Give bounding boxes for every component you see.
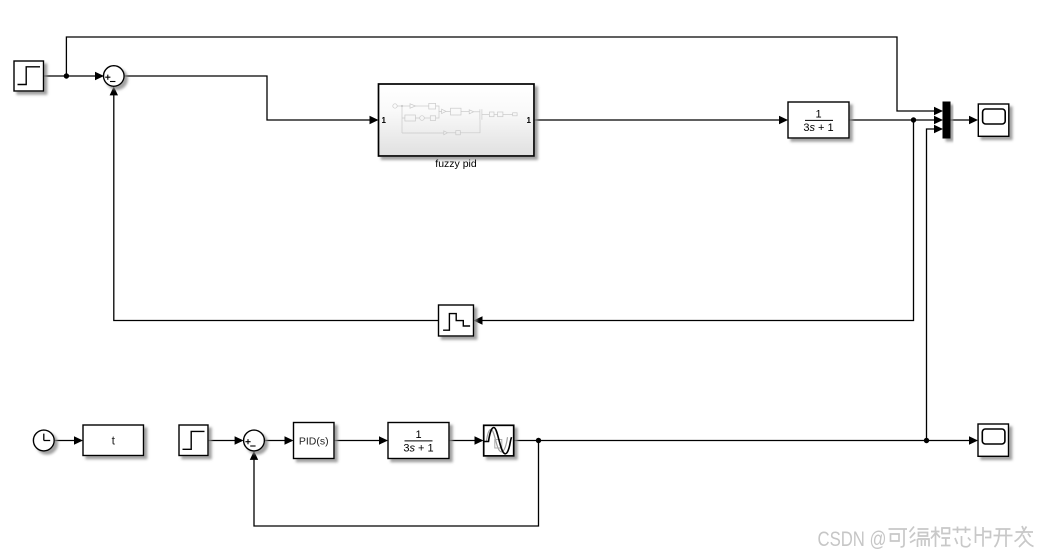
transport delay1 (stair icon block) [439,305,474,336]
wire sum2 to PID [264,440,292,442]
wire branch down to transport delay1 input [475,120,914,321]
svg-text:PID(s): PID(s) [299,435,329,447]
sum1 minus sign [110,81,115,83]
node junction after transfer fcn1 [911,117,916,122]
clock Clock [33,430,54,451]
svg-text:1: 1 [815,109,821,121]
node junction before scope2 [924,438,929,443]
watermark CJK glyphs [889,526,1034,547]
wire bottom branch to mux input 3 [927,129,942,441]
transfer function block 1/(3s+1) top [788,102,849,138]
wire top feed line to mux input 1 [66,37,941,111]
sum junction Sum1 [104,66,125,87]
svg-text:1: 1 [382,116,387,125]
wire clock to t block [54,440,81,442]
wire PID to transfer fcn2 [334,440,387,442]
fuzzy pid miniature preview [393,103,517,134]
scope Scope1 [978,104,1009,136]
node junction after transport delay2 [536,438,541,443]
glyph ke [889,529,908,547]
step source Step [14,61,44,91]
to-workspace block t [83,425,144,456]
wire mux to scope1 [950,119,977,121]
svg-text:3s + 1: 3s + 1 [403,443,433,455]
transport delay2 (sine icon block) [484,425,514,456]
fraction bar TF2 [405,440,433,442]
scope Scope2 [978,424,1009,456]
wire step2 to sum2 [208,440,242,442]
transfer function block 1/(3s+1) bottom [388,423,449,459]
sum2 minus sign [250,445,255,447]
node junction on step1 output [64,73,69,78]
sum2 plus sign [245,439,250,444]
sum1 plus sign [105,75,110,80]
svg-text:3s + 1: 3s + 1 [803,122,833,134]
fraction bar TF1 [805,119,833,121]
wire feedback2 to sum2 minus input [254,441,539,527]
svg-text:fuzzy pid: fuzzy pid [435,158,477,170]
svg-text:1: 1 [415,429,421,441]
wire fuzzy pid to transfer fcn1 [534,119,787,121]
controller block PID(s) [294,423,335,459]
glyph kai [994,529,1013,547]
wire step1 to sum1 [44,75,103,77]
subsystem U fuzzy pid [379,84,535,156]
step source Step2 [179,425,208,456]
input sine (black) [485,428,512,454]
mux Mux [943,102,950,138]
wire transport delay1 output to sum1 minus input [114,88,439,321]
wire transfer fcn2 to transport delay2 [449,440,482,442]
glyph fa [1015,526,1034,547]
glyph pian [976,527,991,547]
glyph cheng [931,527,951,548]
wire transport delay2 to scope2 [514,440,977,442]
wire transfer fcn1 to mux input 2 [849,119,942,121]
glyph xin [953,527,971,547]
wire sum1 to fuzzy pid [124,76,377,120]
svg-text:1: 1 [527,116,532,125]
svg-text:CSDN @: CSDN @ [818,528,887,551]
sum junction Sum2 [244,430,265,451]
glyph bian [910,527,930,548]
delayed sine (gray) [487,429,508,452]
